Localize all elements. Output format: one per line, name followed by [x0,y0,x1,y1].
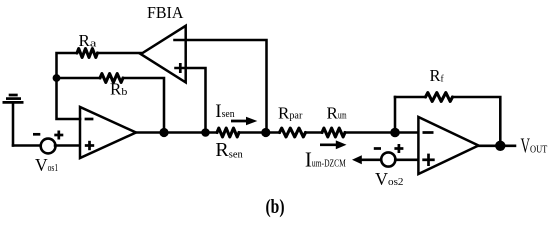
resistor Rf [426,93,453,102]
wire Rum to U2 - input [345,131,418,134]
wire node to Rb [57,77,101,80]
wire Rf top right and right leg [453,97,501,146]
op-amp U2 [418,117,478,174]
node junction on U1 - branch [53,74,61,82]
wire U2 output [479,145,516,148]
wire FBIA + input down to main line [176,68,206,133]
node U1 output / Rb [159,128,168,137]
node FBIA - tap [261,128,270,137]
wire Vos2 to U2 + input [395,159,418,162]
wire Rf top left [395,96,426,99]
wire Rf left leg [394,97,397,133]
wire ground stem [12,104,15,146]
current arrow at Vos2 pointing left [352,155,381,164]
resistor Rum [322,128,345,137]
source Vos1 [33,131,63,154]
source Vos2 [374,144,404,167]
wire FBIA - input down to main line [175,40,267,133]
wire Rpar to Rum [306,131,323,134]
node Vout [495,141,505,151]
svg-text:(b): (b) [266,197,285,218]
wire U1 output main line [136,131,217,134]
op-amp FBIA [141,26,186,83]
node FBIA + tap [201,128,210,137]
ground [3,95,24,102]
wire Ra to FBIA output apex [98,52,141,55]
wire Rsen to Rpar [239,131,280,134]
wire Rb down to U1 output node [123,78,164,133]
resistor Rb [100,74,123,83]
wire U1 - input [57,53,81,119]
resistor Ra [77,49,98,58]
resistor Rsen [217,128,239,137]
svg-text:FBIA: FBIA [147,3,184,22]
current arrow Isen [231,117,257,126]
node Rf tap [390,128,400,138]
current arrow Ium-DZCM [320,140,347,149]
wire Vos1 to U1 + input [55,144,80,147]
wire ground to Vos1 [13,144,41,147]
resistor Rpar [280,128,306,137]
op-amp U1 [80,107,136,158]
